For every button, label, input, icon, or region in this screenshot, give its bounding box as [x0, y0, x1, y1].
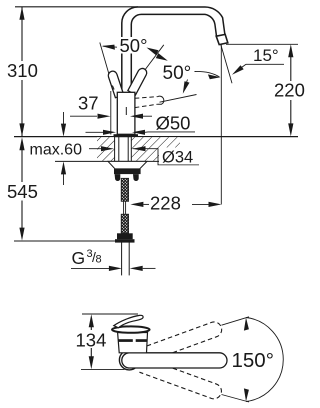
connection tube G3/8 [121, 243, 123, 276]
dim 134 top extension line [82, 313, 138, 315]
handle cap lens [112, 326, 150, 332]
flexible hose braid upper [121, 178, 128, 201]
mounting tabs [115, 174, 121, 181]
right lever (open position) [128, 68, 147, 95]
escutcheon base plate [114, 134, 139, 137]
svg-text:37: 37 [78, 93, 99, 114]
svg-text:Ø34: Ø34 [162, 149, 193, 167]
handle angle ray A [100, 43, 111, 81]
svg-text:8: 8 [96, 254, 102, 266]
bowtie arrow 1 on ray B [147, 48, 159, 56]
swivel base circles [119, 350, 139, 370]
spout axis line 15deg [221, 45, 232, 84]
svg-text:134: 134 [76, 330, 107, 351]
bowtie arrow 2 on ray B [156, 53, 168, 61]
svg-text:310: 310 [7, 60, 38, 81]
svg-text:G: G [72, 248, 86, 268]
extension line from bottom dashed tip to arc [222, 395, 250, 403]
faucet body [117, 92, 135, 134]
svg-text:Ø50: Ø50 [156, 113, 191, 134]
dashed spout down position [139, 358, 223, 401]
extension line from top dashed tip to arc [222, 317, 250, 325]
hose end fitting flange [115, 239, 135, 242]
max60 bottom arrow [61, 161, 66, 174]
dim 134 line arrows [89, 314, 94, 327]
svg-text:220: 220 [274, 80, 305, 101]
counter bottom line with max60 underline [55, 160, 180, 162]
plumb vertical line from spout tip [220, 45, 222, 205]
arc from second 50 to plumb line [195, 71, 220, 77]
max60 top arrow [63, 112, 65, 124]
hole edge lines [114, 137, 116, 161]
dim 134 bottom extension line [81, 368, 125, 370]
mounting nut dark bar [114, 169, 141, 174]
svg-text:max.60: max.60 [30, 142, 83, 159]
arc arrow bottom [244, 388, 249, 401]
G3/8 dimension arrows [71, 267, 110, 269]
dimension 220 line and arrows [290, 56, 292, 81]
counter hatch left block [97, 137, 115, 161]
closed handle axis line ray C [160, 95, 197, 103]
arc arrow top [244, 318, 249, 331]
spout aerator tip box [216, 34, 228, 44]
shank tube lines [118, 137, 120, 169]
extension line left of body [110, 91, 112, 135]
label 50deg first (with white bg over pipe) [118, 37, 151, 54]
dimension 228 [130, 202, 143, 207]
handle collar band [118, 339, 133, 342]
dimension 37 row [70, 115, 97, 117]
dimension Ø50 arrows row [86, 131, 104, 133]
dimension 310 extension line top [15, 6, 138, 8]
handle lever blade [114, 315, 143, 327]
flexible hose braid lower [121, 214, 128, 233]
arc arrow on ray A [103, 46, 117, 47]
small dash left [112, 86, 114, 90]
dashed spout up position [140, 320, 224, 363]
handle angle ray B [142, 45, 164, 75]
label Ø34 with leader [133, 149, 199, 165]
leader from second 50 down to closed handle line [184, 80, 188, 91]
hose thin mid section [123, 201, 125, 214]
swivel arc 150 [246, 318, 283, 402]
svg-text:50°: 50° [120, 35, 148, 56]
solid spout capsule [122, 353, 227, 368]
svg-text:15°: 15° [253, 46, 279, 65]
dimension 220 extension line from tip [226, 43, 298, 45]
handle body trapezoid [118, 333, 148, 353]
counter hatch right block [131, 137, 180, 161]
545 bottom extension line [14, 240, 117, 242]
left lever (open position) [108, 71, 124, 98]
dimension 545 [19, 137, 24, 150]
spout pipe outline [122, 7, 225, 96]
dashed closed lever [135, 97, 158, 99]
counter top line [14, 136, 298, 138]
svg-text:545: 545 [7, 181, 38, 202]
svg-text:228: 228 [150, 193, 181, 214]
Ø34 left arrow [89, 148, 101, 150]
svg-text:150°: 150° [232, 349, 274, 372]
mounting washer trapezoid [108, 161, 147, 169]
body center tick [125, 107, 127, 115]
dimension 310 line and arrows [21, 7, 23, 61]
hose end fitting [117, 233, 133, 239]
